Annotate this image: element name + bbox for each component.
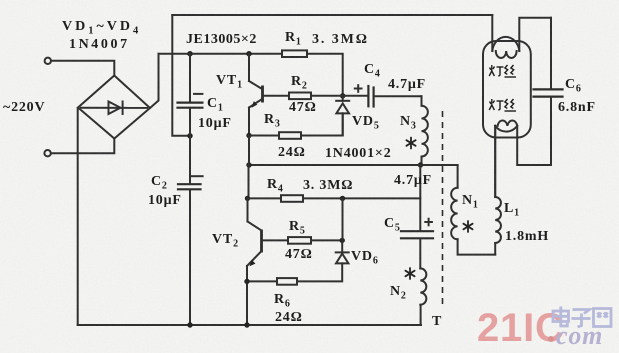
resistor R2 xyxy=(289,93,311,100)
node xyxy=(187,322,192,327)
wire R6 left xyxy=(247,280,277,282)
resistor R1 xyxy=(282,50,307,57)
resistor R3 xyxy=(279,132,301,139)
wire xyxy=(51,61,114,76)
wire R4 row right xyxy=(303,197,420,199)
node xyxy=(418,162,423,167)
diode VD6 xyxy=(297,240,349,281)
wire base VT2 xyxy=(262,239,289,241)
polarity mark N1 xyxy=(463,221,472,232)
node xyxy=(340,238,345,243)
wire R2 to node xyxy=(311,95,343,97)
label lamp filament top xyxy=(489,65,516,77)
wire bridge plus up xyxy=(150,54,159,108)
node xyxy=(245,196,250,201)
node xyxy=(187,51,192,56)
fluorescent tube xyxy=(483,41,531,138)
AC terminal top xyxy=(45,58,51,64)
wire lamp return to capacitor midpoint xyxy=(172,15,190,136)
node xyxy=(340,196,345,201)
transistor VT1 xyxy=(249,54,263,136)
node xyxy=(244,322,249,327)
wire DC+ rail xyxy=(159,53,283,55)
node xyxy=(244,279,249,284)
bridge rectifier VD1-VD4 xyxy=(78,76,150,139)
bottom filament xyxy=(495,121,551,197)
resistor R4 xyxy=(281,195,303,202)
winding N2 xyxy=(420,268,426,325)
wire bottom rail xyxy=(78,324,421,326)
wire bridge minus down xyxy=(77,108,79,325)
paper noise xyxy=(0,0,1,1)
capacitor C2 xyxy=(178,136,203,325)
capacitor C1 xyxy=(178,54,203,136)
transformer core xyxy=(442,111,444,305)
wire base VT1 xyxy=(263,95,290,97)
wire R3 row right xyxy=(301,113,343,135)
resistor R6 xyxy=(277,278,297,285)
capacitor C5 xyxy=(401,165,433,268)
AC terminal bottom xyxy=(44,150,50,156)
wire R5 to node xyxy=(311,239,342,241)
watermark .com xyxy=(548,336,554,342)
watermark dian zi wang xyxy=(553,307,611,328)
inductor L1 xyxy=(495,126,501,255)
polarity mark N3 xyxy=(406,138,415,149)
node xyxy=(340,93,345,98)
capacitor C4 xyxy=(343,85,422,106)
wire mid rail xyxy=(249,164,458,166)
wire xyxy=(51,139,114,154)
capacitor C6 xyxy=(534,18,563,165)
transistor VT2 xyxy=(247,198,262,325)
wire top rail xyxy=(172,14,492,16)
wire VT2 collector column xyxy=(248,165,250,198)
resistor R5 xyxy=(288,237,311,244)
wire VD6 column top xyxy=(342,198,344,240)
polarity mark N2 xyxy=(405,268,414,279)
top filament xyxy=(492,15,551,58)
wire R3 row left xyxy=(249,135,279,137)
wire R1 to node xyxy=(307,54,343,93)
wire VT column mid xyxy=(248,136,250,166)
winding N3 xyxy=(422,96,428,165)
node xyxy=(246,51,251,56)
node xyxy=(246,162,251,167)
node xyxy=(246,133,251,138)
diode VD5 xyxy=(336,96,349,136)
node xyxy=(187,133,192,138)
winding N1 xyxy=(451,165,495,255)
label lamp filament bottom xyxy=(489,99,516,111)
wire R4 row left xyxy=(248,197,282,199)
